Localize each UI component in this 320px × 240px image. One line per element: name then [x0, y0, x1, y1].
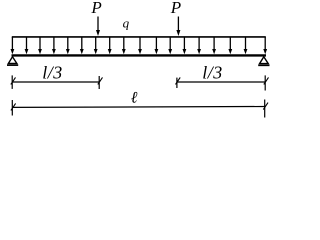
support B pin triangle: [258, 57, 269, 66]
distributed load top line: [12, 36, 266, 38]
svg-text:l/3: l/3: [42, 63, 63, 83]
svg-text:q: q: [123, 15, 130, 30]
dimension l/3 right: [176, 75, 269, 90]
dimension l overall: [11, 100, 268, 118]
support A pin triangle: [7, 57, 18, 65]
svg-text:P: P: [90, 0, 101, 17]
load arrows: [11, 37, 268, 54]
svg-text:P: P: [170, 0, 181, 17]
svg-text:l/3: l/3: [202, 63, 223, 83]
svg-text:ℓ: ℓ: [131, 90, 138, 107]
dimension l/3 left: [11, 75, 103, 89]
point load P2 arrow: [176, 17, 180, 37]
beam: [12, 54, 267, 56]
point load P1 arrow: [96, 17, 100, 37]
